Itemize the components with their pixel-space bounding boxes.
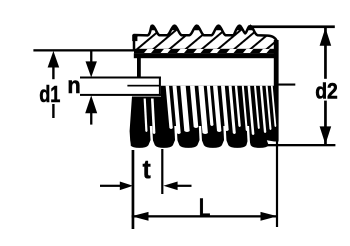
slot top edge extension line [80,77,161,79]
dimension n lower arrow up [85,95,97,113]
extension line t right [161,149,163,194]
dimension d1 line [52,66,54,79]
flange sawtooth outline [134,26,277,51]
dimension d2 arrow down [320,126,332,144]
flange bottom thick band [134,53,279,58]
dimension L arrow left [132,212,149,221]
external thread body, scalloped bottom [130,86,275,148]
dimension n upper arrow down [90,51,92,62]
dimension d2 line lower segment [324,101,327,145]
svg-text:n: n [67,71,80,98]
dimension d1 stub [52,104,54,118]
centerline tick right [276,84,295,86]
flange left corner [132,35,137,42]
dimension d1 arrow up [48,51,60,68]
svg-text:d2: d2 [315,79,338,104]
extension line d2 bottom [256,144,335,146]
slot right end [159,77,161,96]
tooth tips [150,24,156,30]
body right edge [274,40,279,142]
dimension t left arrow [100,185,125,187]
dimension t right arrow [163,182,177,191]
thread crest white slivers [144,86,277,144]
extension line top-left for d1 [33,49,137,51]
svg-text:L: L [199,192,211,222]
flange bottom dashed band [134,49,278,54]
extension line d2 top [252,25,335,28]
dimension L arrow right [261,212,278,221]
body left edge below flange [137,58,141,77]
flange hatch fill [125,24,285,52]
dimension d2 arrow up [320,28,332,46]
dimension d2 line upper segment [324,28,327,79]
dimension L line [132,215,278,217]
slot inner mid line [127,85,159,87]
extension line bottom left for t and L [132,150,135,229]
extension line right for L [276,141,278,227]
slot bottom edge extension line [80,94,161,96]
svg-text:t: t [143,155,151,184]
svg-text:d1: d1 [39,82,61,108]
